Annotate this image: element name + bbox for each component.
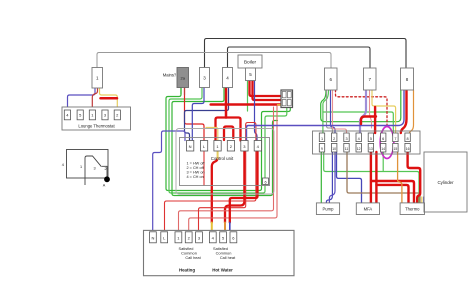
wire brown strip T11 to thermo bbox=[347, 152, 420, 203]
svg-text:2: 2 bbox=[104, 167, 106, 171]
wire green loop G1 mains to block bbox=[166, 87, 290, 191]
svg-text:1: 1 bbox=[321, 137, 323, 141]
wire red programmer T1 riser loop bbox=[179, 107, 274, 232]
gray enclosure wire around control unit bbox=[176, 129, 274, 195]
switch node dot bbox=[104, 176, 110, 182]
svg-text:7: 7 bbox=[394, 137, 396, 141]
wire blue box3 to CU N bbox=[192, 88, 204, 141]
wire blue box6 to strip T2 bbox=[331, 90, 336, 133]
svg-text:Lounge Thermostat: Lounge Thermostat bbox=[78, 124, 115, 129]
junction box 5 bbox=[246, 68, 256, 81]
control unit terminal 3 bbox=[241, 141, 248, 152]
svg-text:13: 13 bbox=[369, 147, 373, 151]
wire red box1 to thermostat T3 bbox=[92, 88, 97, 110]
programmer terminal 3 bbox=[196, 232, 203, 243]
svg-text:3 = HW on: 3 = HW on bbox=[187, 171, 205, 175]
wire thick red CU T3 down to programmer T5 bbox=[225, 151, 244, 223]
wire green box6 to box8 loop bbox=[321, 90, 401, 122]
block cell c bbox=[282, 100, 286, 106]
strip terminals row1 bbox=[319, 133, 410, 142]
svg-text:Cylinder: Cylinder bbox=[437, 180, 454, 185]
junction box 3 bbox=[200, 68, 210, 88]
wire thick red CU T1 down to programmer T4 bbox=[212, 158, 218, 223]
wire thick red box4 down bbox=[225, 88, 228, 118]
svg-text:2a: 2a bbox=[180, 75, 185, 80]
wire red thick box5 to block lower bbox=[253, 81, 282, 101]
wire lavender box7 to strip T4 bbox=[360, 90, 366, 133]
programmer terminal 2 bbox=[185, 232, 192, 243]
wire thick red branch T13 to thermo bbox=[371, 181, 414, 203]
wire red programmer L riser loop bbox=[165, 123, 256, 232]
labels strip row1 bbox=[321, 137, 409, 141]
control unit terminal N bbox=[187, 141, 194, 152]
wire navy box4 to CU N bbox=[185, 88, 229, 141]
svg-text:MFA: MFA bbox=[364, 206, 373, 211]
block cell b bbox=[287, 92, 291, 98]
labels thermostat terminals bbox=[66, 113, 119, 118]
control unit terminal L bbox=[200, 141, 207, 152]
cylinder box bbox=[424, 152, 467, 212]
mfa box bbox=[356, 203, 379, 215]
svg-text:9: 9 bbox=[321, 147, 323, 151]
labels programmer heating group bbox=[179, 246, 202, 260]
junction box 4 bbox=[223, 68, 233, 88]
wire thick red U into CU T1 T3 bbox=[216, 118, 241, 141]
svg-text:16: 16 bbox=[406, 147, 410, 151]
wire thick red T16 to thermo bbox=[408, 152, 421, 203]
switch common arm bbox=[85, 156, 102, 185]
svg-text:3: 3 bbox=[345, 137, 347, 141]
wire yellow tip thermo bbox=[421, 197, 423, 203]
thermostat terminal 2 bbox=[114, 110, 120, 120]
svg-text:Thermo: Thermo bbox=[405, 206, 420, 211]
wire green strip T14 stub bbox=[382, 152, 384, 171]
programmer terminal 6 bbox=[230, 232, 237, 243]
programmer terminal 1 bbox=[175, 232, 182, 243]
wire red CU L drop inside bbox=[203, 151, 205, 186]
wire blue tip thermo bbox=[423, 197, 425, 203]
wire dotted red box6 to strip T6 bbox=[336, 90, 388, 127]
wire red mains to CU L bbox=[185, 87, 205, 141]
programmer terminal 4 bbox=[209, 232, 216, 243]
svg-text:Call heat: Call heat bbox=[220, 255, 236, 260]
wire green box5 stub bbox=[247, 81, 249, 112]
strip terminals row2 bbox=[319, 143, 410, 152]
wire green mains drop bbox=[180, 87, 182, 94]
wire yellow stub at block bbox=[278, 104, 282, 106]
svg-text:4: 4 bbox=[358, 137, 360, 141]
control unit box bbox=[180, 138, 270, 186]
control unit small box 6 bbox=[263, 178, 269, 185]
wire yellow box7 to strip T7 bbox=[372, 90, 396, 133]
thermostat terminal 3 bbox=[102, 110, 108, 120]
wire blue hook2 into pump bbox=[329, 152, 335, 203]
svg-text:6: 6 bbox=[382, 137, 384, 141]
wire blue tip programmer T6 bbox=[229, 223, 231, 232]
thermostat terminal 5 bbox=[77, 110, 83, 120]
svg-text:15: 15 bbox=[394, 147, 398, 151]
svg-text:8: 8 bbox=[407, 137, 409, 141]
programmer terminal L bbox=[161, 232, 168, 243]
wire top black box3 to box8 bbox=[205, 39, 407, 69]
boiler box bbox=[238, 55, 262, 68]
svg-text:2 = CH off: 2 = CH off bbox=[187, 166, 205, 170]
labels strip row2 bbox=[321, 147, 410, 151]
wire green strip T9 to pump bbox=[320, 152, 322, 203]
svg-text:4 = CH on: 4 = CH on bbox=[187, 175, 204, 179]
wire green box6 to strip T1 bbox=[323, 90, 329, 133]
svg-text:A: A bbox=[103, 184, 106, 188]
wire red programmer T3 riser bbox=[199, 125, 246, 232]
thermostat terminal 4 bbox=[64, 110, 70, 120]
svg-text:Boiler: Boiler bbox=[244, 60, 257, 66]
wire orange box8 to strip T8 bbox=[410, 90, 414, 133]
svg-text:Hot Water: Hot Water bbox=[212, 268, 233, 273]
wire yellow tip programmer T4 bbox=[211, 223, 213, 232]
mains gray box 2 bbox=[177, 68, 189, 88]
labels switch detail bbox=[62, 163, 107, 188]
svg-text:Control unit: Control unit bbox=[211, 156, 234, 161]
magenta ellipse highlight bbox=[380, 127, 394, 159]
control unit terminal 4 bbox=[254, 141, 261, 152]
wire thick red stub above thermostat bbox=[101, 97, 118, 100]
svg-text:Call heat: Call heat bbox=[185, 255, 201, 260]
svg-text:2: 2 bbox=[333, 137, 335, 141]
wire yellow into CU T1 bbox=[206, 128, 218, 141]
small 2x2 junction block bbox=[281, 90, 293, 108]
wire gray box6 to strip T2 bbox=[327, 90, 333, 133]
wire orange tip programmer T5 bbox=[224, 223, 226, 232]
wire thick red strip T5 vertical bbox=[374, 107, 376, 133]
svg-text:5: 5 bbox=[370, 137, 372, 141]
programmer terminal 5 bbox=[220, 232, 227, 243]
wire green loop G2 box3 to block bbox=[169, 88, 287, 194]
wire blue long box8 to CU T3 bbox=[247, 90, 405, 141]
wire blue programmer N riser bbox=[153, 131, 185, 232]
wire red programmer T2 riser loop bbox=[189, 106, 277, 232]
labels programmer hotwater group bbox=[213, 246, 236, 260]
svg-text:4: 4 bbox=[62, 163, 64, 167]
wire green loop G3 box4 bbox=[172, 88, 278, 196]
wire thick red strip T13b to MFA bbox=[375, 152, 377, 203]
block cell a bbox=[282, 92, 286, 98]
wire yellow box1 to thermostat T5 bbox=[100, 88, 118, 110]
junction box 1 bbox=[92, 68, 103, 89]
wire blue strip T10 to MFA bbox=[337, 152, 362, 203]
pump box bbox=[316, 203, 339, 215]
programmer terminal N bbox=[150, 232, 157, 243]
block cell d bbox=[287, 100, 291, 106]
svg-text:10: 10 bbox=[332, 147, 336, 151]
wire thick red box8 to strip T8 bbox=[401, 90, 407, 133]
svg-text:6: 6 bbox=[264, 180, 266, 184]
wire thick red strip T13 to MFA bbox=[370, 152, 372, 203]
labels control unit terminals bbox=[189, 144, 260, 149]
wire thick red U2 into CU T2 bbox=[224, 127, 233, 141]
svg-text:3: 3 bbox=[93, 167, 95, 171]
svg-text:Pump: Pump bbox=[323, 206, 335, 211]
wire top black box4 to box7 bbox=[228, 47, 371, 68]
svg-text:N: N bbox=[151, 235, 154, 240]
labels programmer terminals bbox=[151, 235, 235, 240]
programmer box bbox=[144, 230, 295, 275]
junction box 7 bbox=[364, 68, 377, 90]
wire yellow below CU T1 bbox=[217, 151, 219, 159]
thermo box bbox=[400, 203, 424, 215]
svg-text:Heating: Heating bbox=[179, 268, 195, 273]
wire orange strip T15 to thermo bbox=[398, 152, 402, 203]
thermostat switch detail box bbox=[67, 150, 109, 179]
wire red thick box5 to block bbox=[250, 81, 282, 97]
svg-text:N: N bbox=[189, 144, 192, 149]
junction box 6 bbox=[325, 68, 338, 90]
wire blue box5 to CU T4 bbox=[255, 81, 258, 141]
wire thick red branch T13b to thermo bbox=[376, 185, 408, 203]
wire blue hook into pump bbox=[326, 152, 332, 203]
wire pink box7 to strip T5 bbox=[370, 90, 372, 128]
control unit terminal 2 bbox=[227, 141, 234, 152]
junction box 8 bbox=[401, 68, 414, 90]
wire green branch to strip T7 bbox=[323, 112, 393, 133]
wire red mains drop bbox=[184, 87, 186, 95]
control unit terminal 1 bbox=[214, 141, 221, 152]
switch contact lead bbox=[102, 166, 107, 177]
wire blue box1 to thermostat T1 bbox=[68, 88, 96, 110]
svg-text:12: 12 bbox=[357, 147, 361, 151]
thermostat terminal 1 bbox=[89, 110, 95, 120]
svg-text:1: 1 bbox=[80, 165, 82, 169]
wire green strip T9 long run to thermo bbox=[324, 152, 419, 203]
wire thick red elbow into T5 bbox=[361, 117, 376, 125]
svg-text:14: 14 bbox=[381, 147, 385, 151]
wire thick red bus to block bbox=[211, 103, 281, 106]
svg-text:11: 11 bbox=[345, 147, 349, 151]
wire top gray box1 to box6 bbox=[97, 53, 331, 69]
wire pink box6 to strip T3 bbox=[333, 90, 347, 133]
wire red CU T4 down to programmer T6 bbox=[230, 151, 258, 223]
lounge thermostat box bbox=[62, 107, 131, 130]
svg-text:1 = HW off: 1 = HW off bbox=[187, 162, 206, 166]
svg-text:Mains?: Mains? bbox=[163, 73, 177, 78]
wiring strip box bbox=[313, 131, 421, 154]
